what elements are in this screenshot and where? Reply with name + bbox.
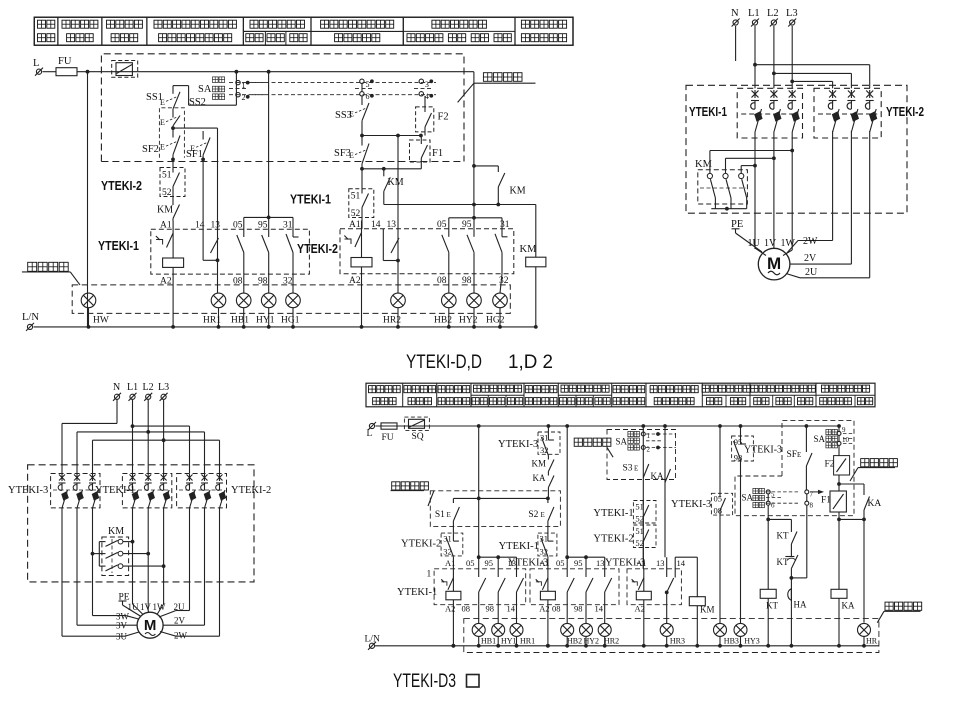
wire main drop 95/98	[740, 426, 742, 436]
timed contact KT (delay)	[777, 552, 798, 578]
label YTEKI-3 (05/08)	[671, 499, 711, 510]
wire A2 to bus b1	[171, 268, 175, 329]
wire 3W to motor	[93, 616, 139, 619]
svg-text:HY1: HY1	[501, 637, 517, 646]
bridge block1	[479, 555, 517, 569]
label YTEKI-3 (mid b1)	[508, 558, 548, 569]
label YTEKI-3 (mid b2)	[605, 558, 645, 569]
wire 1W to motor	[783, 250, 792, 256]
svg-text:SF2: SF2	[142, 144, 159, 155]
lamp HG2	[486, 293, 507, 329]
label 3U	[116, 632, 128, 642]
wires block2 to lamps	[567, 605, 605, 624]
pushbutton SS2	[160, 97, 206, 128]
interlock 51/52 YTEKI-1 (b3)	[633, 501, 656, 526]
label 1V (D3)	[140, 602, 152, 612]
wire 1V vertical (D3)	[147, 508, 149, 611]
fuse FU	[56, 56, 77, 76]
svg-text:SS1: SS1	[146, 92, 163, 103]
signal header table text (bottom)	[369, 385, 873, 405]
feed bridge b1	[244, 216, 293, 230]
terminal L	[33, 58, 43, 76]
selector SA labels (right)	[814, 429, 838, 448]
wire N stub	[735, 26, 737, 61]
svg-text:13: 13	[211, 221, 221, 231]
svg-text:KT: KT	[777, 557, 789, 567]
wire 3V to motor	[77, 624, 137, 626]
svg-text:F1: F1	[432, 148, 443, 159]
labels 14 13 b1	[195, 221, 220, 231]
pushbutton S2	[528, 498, 554, 533]
svg-text:05: 05	[437, 220, 447, 230]
svg-text:HR1: HR1	[203, 316, 221, 326]
SA contact 3	[419, 79, 433, 89]
svg-text:2: 2	[647, 446, 651, 454]
svg-text:SA: SA	[814, 434, 826, 444]
svg-text:52: 52	[635, 538, 644, 548]
selector SA labels	[198, 77, 225, 100]
svg-text:E: E	[160, 118, 165, 127]
bottom bus wire	[34, 326, 536, 328]
svg-text:S1: S1	[435, 510, 445, 520]
feed bridge b2	[449, 205, 502, 229]
svg-text:05: 05	[556, 558, 565, 568]
contact 95/98 blk1	[498, 569, 505, 605]
terminal L1	[748, 8, 760, 27]
terminal L/N (D3)	[365, 635, 380, 650]
selector SA contacts 1/2 (D3)	[641, 432, 676, 454]
user-supplied label (lamps D3)	[877, 602, 921, 623]
lamp enclosure (D3, dashed)	[464, 619, 879, 653]
label YTEKI-2 (D3)	[231, 485, 271, 496]
motor M1 (two-speed)	[758, 248, 790, 280]
contactor aux KM b2-left	[384, 169, 404, 205]
labels 14 13 b2	[371, 220, 396, 230]
wire SA9/10	[837, 424, 841, 456]
svg-text:YTEKI-3: YTEKI-3	[671, 499, 711, 510]
timer KT coil	[760, 589, 778, 647]
svg-text:M: M	[767, 254, 781, 273]
wire KM c2 to 1V	[726, 158, 774, 171]
motor M2 (two-speed)	[137, 612, 163, 638]
contactor aux KM b1	[157, 199, 180, 221]
wire 3W vertical	[92, 508, 94, 616]
label YTEKI-2 relay b2	[297, 242, 338, 256]
lamp HR2	[598, 623, 619, 647]
wire 2W	[786, 131, 833, 254]
wire KM c1 to 1W	[710, 151, 792, 172]
bridge block2	[567, 555, 605, 569]
svg-text:HY3: HY3	[744, 637, 760, 646]
pushbutton SF3	[334, 136, 369, 169]
fuse FU (D3 ctrl)	[381, 423, 397, 443]
contactor KM box	[698, 170, 748, 204]
label 1 (block1)	[427, 570, 432, 580]
wire SS3 top	[361, 84, 363, 97]
wire 1W vertical	[790, 132, 794, 250]
pushbutton SS1	[146, 86, 180, 113]
svg-text:E: E	[797, 451, 801, 459]
wire KA coil feed	[839, 519, 864, 589]
wire HR lamp feed	[863, 519, 865, 622]
lamp HB1	[472, 623, 496, 647]
svg-text:KA: KA	[868, 499, 882, 509]
svg-text:14: 14	[677, 558, 686, 568]
svg-text:31: 31	[283, 221, 293, 231]
svg-text:2V: 2V	[804, 253, 817, 264]
wire N drop to bus	[87, 72, 89, 327]
contact 95/98 b1	[262, 229, 269, 274]
svg-text:YTEKI-D3: YTEKI-D3	[393, 670, 456, 692]
title YTEKI-D3	[393, 670, 479, 692]
label YTEKI-3 (chain)	[498, 439, 538, 450]
label 2U	[805, 267, 818, 278]
svg-text:98: 98	[574, 604, 583, 614]
svg-text:E: E	[160, 143, 165, 152]
relay latch coil b1	[156, 221, 184, 267]
lamp HY3	[734, 623, 760, 647]
wires contacts to lamps b2	[449, 274, 502, 293]
labels 05 95 31 b2	[437, 220, 510, 230]
label 2W	[803, 236, 818, 247]
label A1 b1	[160, 221, 172, 231]
contactor aux KM b2-right	[474, 166, 526, 207]
panel enclosure (dashed)	[686, 85, 907, 213]
breaker QF2 poles (YTEKI-2)	[818, 90, 877, 132]
svg-text:2: 2	[242, 93, 246, 102]
svg-text:HR2: HR2	[383, 316, 401, 326]
wire 1U vertical	[753, 132, 757, 249]
labels 05 95 31 b1	[233, 221, 293, 231]
svg-text:KA: KA	[842, 601, 855, 611]
wire KM out3	[125, 564, 166, 568]
svg-text:A1: A1	[636, 558, 646, 568]
svg-text:HY1: HY1	[256, 316, 275, 326]
svg-text:1V: 1V	[764, 238, 777, 249]
svg-text:L2: L2	[143, 382, 154, 393]
svg-text:HB2: HB2	[567, 637, 582, 646]
wire L2 feeder	[772, 26, 851, 88]
wire L3 feeder	[790, 26, 832, 88]
wires contacts to lamps b1	[244, 274, 293, 293]
contactor 1 coil	[441, 558, 461, 648]
svg-text:95: 95	[485, 558, 494, 568]
label 3V	[116, 621, 128, 631]
relay bus b2	[384, 204, 536, 206]
signal table header grid	[34, 17, 573, 45]
svg-text:YTEKI-1: YTEKI-1	[689, 104, 727, 119]
breaker YTEKI-1 box (D3)	[122, 474, 171, 508]
SA contact 8	[805, 501, 814, 509]
fuse module F2 (D3)	[825, 456, 850, 486]
svg-text:2W: 2W	[174, 631, 188, 641]
interlock 31/32 YTEKI-1 (b2 D3)	[538, 533, 557, 569]
wire N to QF3 pole1	[62, 400, 117, 474]
relay box b1 (dashed)	[151, 229, 310, 274]
lamp HG1	[281, 293, 300, 329]
terminal PE (D3)	[119, 593, 142, 617]
svg-text:A1: A1	[445, 558, 455, 568]
svg-text:14: 14	[507, 604, 516, 614]
svg-text:52: 52	[162, 188, 172, 198]
breaker YTEKI-3 box	[51, 474, 100, 508]
contact 13/14 blk2	[605, 569, 612, 605]
wire KM left bus	[91, 542, 106, 567]
svg-text:YTEKI-2: YTEKI-2	[297, 242, 338, 256]
control section enclosure (dashed)	[101, 54, 464, 162]
label YTEKI-1 interlock b2	[290, 193, 331, 207]
svg-text:HR: HR	[866, 637, 878, 646]
relay box b2 (dashed)	[340, 229, 514, 274]
interlock 51/52 b1	[160, 168, 185, 200]
wire 3U vertical	[61, 508, 63, 636]
wires block1 to lamps	[479, 605, 517, 624]
svg-text:KA: KA	[533, 473, 546, 483]
pushbutton S1	[435, 498, 460, 533]
wire 2V	[790, 131, 852, 264]
wire KM star bus	[711, 198, 746, 211]
label A2 b1	[160, 277, 172, 287]
lamp HW	[81, 293, 109, 329]
relay KA coil	[831, 589, 855, 647]
svg-text:95: 95	[462, 220, 472, 230]
SF1 box (dashed)	[0, 0, 1, 1]
svg-text:YTEKI-2: YTEKI-2	[231, 485, 271, 496]
pushbutton SF2	[142, 128, 180, 159]
wire HW top	[0, 0, 1, 1]
svg-text:HG2: HG2	[486, 316, 505, 326]
contact 13/14 blk1	[517, 569, 524, 605]
label YTEKI-3 (D3)	[8, 485, 48, 496]
node SS3-13-F2	[360, 125, 423, 137]
svg-text:SS2: SS2	[189, 97, 206, 108]
svg-text:51: 51	[635, 502, 644, 512]
svg-text:A2: A2	[445, 604, 455, 614]
svg-text:13: 13	[387, 220, 397, 230]
aux contact 13/14 b2	[383, 229, 400, 263]
interlock 51/52 b2	[349, 189, 374, 229]
svg-text:FU: FU	[58, 56, 72, 67]
svg-text:51: 51	[351, 192, 361, 202]
label 1W	[781, 238, 796, 249]
contactor KM contacts (D3)	[106, 539, 125, 573]
svg-text:52: 52	[351, 209, 361, 219]
svg-text:05: 05	[714, 494, 723, 504]
label YTEKI-1 (block1)	[397, 587, 437, 598]
svg-text:YTEKI-2: YTEKI-2	[593, 534, 633, 545]
terminal N	[731, 8, 740, 27]
contact 31/32 b2 (NC)	[495, 229, 508, 274]
svg-text:YTEKI-2: YTEKI-2	[886, 104, 924, 119]
user-supplied wire (top)	[458, 73, 536, 103]
contact 95/98 b2	[467, 229, 474, 274]
breaker QF1 poles (YTEKI-1)	[741, 90, 800, 132]
wire main drop b3-coil	[642, 426, 644, 569]
svg-text:L1: L1	[127, 382, 138, 393]
wire 1V vertical	[772, 132, 776, 248]
svg-text:HR1: HR1	[520, 637, 535, 646]
terminal L1 (D3)	[127, 382, 138, 401]
S3 group box (dashed)	[607, 430, 676, 480]
main wire (D3 ctrl)	[376, 424, 840, 428]
panel enclosure D3 (dashed)	[28, 465, 254, 582]
svg-text:SQ: SQ	[412, 432, 424, 442]
breaker QF1 poles (D3)	[125, 474, 170, 508]
svg-text:HW: HW	[93, 316, 109, 326]
svg-text:SA: SA	[616, 437, 628, 447]
pushbutton SS3	[335, 97, 369, 126]
wire 2W to motor (D3)	[160, 632, 220, 637]
terminal N (D3)	[113, 382, 121, 401]
label YTEKI-1	[689, 104, 727, 119]
svg-text:08: 08	[462, 604, 471, 614]
wire L1 feeder (D3)	[131, 400, 190, 474]
svg-text:L2: L2	[767, 8, 779, 19]
svg-text:YTEKI-1: YTEKI-1	[397, 587, 437, 598]
contact 31/32 b1 (NC)	[286, 229, 299, 274]
svg-text:KT: KT	[777, 531, 789, 541]
svg-text:SS3: SS3	[335, 110, 352, 121]
labels 05 95 13 (block1)	[466, 558, 516, 568]
svg-text:L3: L3	[158, 382, 169, 393]
lamp HY1	[492, 623, 517, 647]
svg-text:1U: 1U	[748, 238, 761, 249]
junction SS2 bottom	[171, 126, 217, 130]
signal header table text (top)	[38, 20, 567, 42]
lamp HB2	[434, 293, 456, 329]
user-supplied label (lamps)	[22, 262, 80, 285]
lamp HY2	[580, 623, 600, 647]
svg-text:SF: SF	[787, 450, 798, 460]
wire main drop b3-13	[664, 426, 666, 557]
wire L1 feeder	[753, 26, 870, 88]
SA linkage (mid)	[766, 490, 824, 504]
contactor block3 box (dashed)	[627, 569, 681, 605]
label 2W (D3)	[174, 631, 188, 641]
svg-text:6: 6	[771, 502, 775, 510]
svg-text:1U: 1U	[128, 602, 140, 612]
contactor aux KM (chain)	[532, 456, 555, 473]
relay latch coil b2	[344, 221, 372, 267]
wire main drop 05/08	[719, 426, 721, 493]
label YTEKI-2 interlock b1	[101, 179, 142, 193]
wire chain drop	[547, 426, 549, 432]
label YTEKI-2 interlock (b1 D3)	[401, 539, 441, 550]
wire 14 to KM coil	[675, 557, 697, 597]
labels 08 98 32 b2	[437, 276, 509, 286]
damper switch SQ	[404, 417, 429, 442]
svg-text:3: 3	[425, 80, 429, 89]
label 3W	[116, 612, 130, 622]
wire 1U to motor (D3)	[133, 604, 144, 615]
circuit breaker YTEKI-2 box	[814, 88, 881, 138]
label YTEKI-1 interlock (b3)	[593, 508, 633, 519]
labels 05 95 13 (block2)	[556, 558, 605, 568]
svg-text:N: N	[731, 8, 739, 19]
svg-text:HB1: HB1	[231, 316, 249, 326]
interlock 05/08 YTEKI-3	[711, 493, 732, 623]
svg-text:31: 31	[500, 220, 510, 230]
svg-text:KM: KM	[157, 205, 173, 216]
wire 95/98 down to lamp HY3	[740, 462, 742, 623]
label 1W (D3)	[153, 602, 167, 612]
svg-text:L/N: L/N	[22, 312, 39, 323]
svg-text:L: L	[33, 58, 39, 69]
SA contact 7	[805, 490, 814, 499]
wire 1V to motor (D3)	[147, 611, 150, 613]
bus dots extra	[452, 644, 550, 648]
svg-text:A1: A1	[349, 220, 361, 230]
svg-text:9: 9	[842, 426, 846, 434]
wire KM c3 to 1U	[741, 166, 755, 171]
node SF3 row b2	[360, 167, 421, 189]
interlock 31/32 YTEKI-3 (chain)	[538, 432, 560, 456]
terminal L (D3 ctrl)	[367, 422, 377, 439]
contact 05/08 b1	[237, 229, 244, 274]
user-supplied label (right top)	[850, 459, 897, 481]
labels 08 98 14 (block1)	[462, 604, 516, 614]
user-supplied label (S1)	[391, 482, 434, 506]
lamp HR	[858, 623, 878, 647]
lamp HY1	[256, 293, 276, 329]
svg-text:14: 14	[371, 220, 381, 230]
svg-text:HY2: HY2	[584, 637, 600, 646]
svg-text:6: 6	[366, 92, 370, 101]
wire KT contact branch	[768, 519, 791, 529]
svg-text:E: E	[541, 511, 545, 519]
wire 2W vertical (D3)	[219, 508, 221, 636]
svg-text:L: L	[367, 429, 373, 439]
label KM (D3)	[108, 526, 124, 537]
svg-text:A1: A1	[539, 558, 549, 568]
lamp HR2	[383, 293, 405, 329]
signal header table grid (bottom)	[366, 383, 875, 407]
title YTEKI-D,D 1,D 2	[406, 351, 553, 373]
lamp HB1	[231, 293, 251, 329]
label A2 b2	[349, 276, 361, 286]
svg-text:HA: HA	[794, 600, 807, 610]
wire KM out1	[125, 540, 135, 544]
contactor KM box (D3)	[102, 537, 129, 576]
fuse module F2 (dashed box)	[416, 96, 449, 136]
svg-text:A2: A2	[539, 604, 549, 614]
SA contact 9	[837, 426, 846, 435]
svg-text:51: 51	[635, 526, 644, 536]
svg-text:N: N	[113, 382, 120, 393]
wire feed drop b1	[268, 72, 270, 218]
svg-text:HB3: HB3	[724, 637, 739, 646]
wire 2V vertical (D3)	[204, 508, 206, 625]
svg-text:KM: KM	[532, 459, 547, 469]
wire 13 output to lamp HR1	[217, 238, 219, 293]
svg-text:YTEKI-1: YTEKI-1	[95, 485, 135, 496]
wire L3 feeder (D3)	[93, 400, 220, 474]
signal header table grid (top)	[34, 17, 573, 45]
selector SA labels (mid)	[742, 488, 765, 507]
svg-text:HR2: HR2	[604, 637, 619, 646]
wire user drop b2	[472, 72, 476, 207]
svg-text:51: 51	[162, 171, 172, 181]
label 2U (D3)	[174, 602, 186, 612]
wire 3V vertical	[76, 508, 78, 625]
pushbutton S3	[623, 464, 649, 478]
wire main drop b2	[565, 426, 569, 569]
contactor KM main contacts	[700, 171, 747, 198]
lamp HR1	[510, 623, 535, 647]
svg-text:YTEKI-1: YTEKI-1	[290, 193, 331, 207]
label YTEKI-2 interlock (b3)	[593, 534, 633, 545]
junction SF row b1	[171, 158, 205, 230]
